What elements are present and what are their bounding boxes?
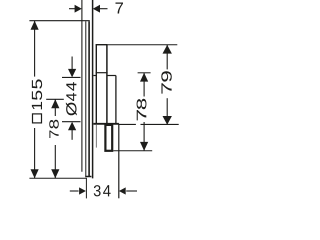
dim 34 left tail bbox=[70, 190, 79, 192]
dim 78 right down arrowhead bbox=[140, 142, 148, 151]
dim 78 left down arrowhead bbox=[51, 169, 59, 178]
white gap in ext under 78 text bbox=[136, 122, 141, 126]
label 79 bbox=[161, 83, 171, 93]
body faint inner vertical bbox=[95, 124, 97, 148]
dim O44 top tick bbox=[62, 76, 81, 78]
dim O44 lower arrow line bbox=[71, 129, 73, 140]
dim 7 right tail bbox=[100, 8, 108, 10]
label O44 bbox=[66, 102, 77, 115]
body box1 right edge bbox=[106, 45, 108, 124]
body box2 right edge bbox=[115, 76, 117, 125]
plate back line bbox=[88, 21, 90, 176]
dim 78 right top tick bbox=[138, 72, 151, 74]
body box1 left edge bbox=[95, 45, 97, 124]
dim 155 top extension line bbox=[29, 20, 89, 22]
label 78 left bbox=[49, 131, 58, 139]
dim O44 down arrowhead bbox=[68, 69, 76, 78]
dim 79 down arrowhead bbox=[163, 116, 172, 125]
body box1 top edge bbox=[96, 44, 108, 46]
dim O44 up arrowhead bbox=[68, 122, 76, 131]
label 34 bbox=[94, 185, 101, 196]
dim O44 bottom tick bbox=[62, 121, 81, 123]
dim 78 right line upper seg bbox=[143, 73, 145, 97]
dim 79 up arrowhead bbox=[163, 45, 172, 54]
dim 79 line upper seg bbox=[166, 45, 168, 70]
dim 78 right up arrowhead bbox=[140, 73, 148, 82]
dim 155/78 bottom extension line bbox=[29, 177, 86, 179]
dim 78 left line upper seg bbox=[54, 99, 56, 116]
label 78 right bbox=[137, 110, 147, 120]
dim 78 left top tick bbox=[46, 98, 64, 100]
dim 78 right line lower seg bbox=[143, 122, 145, 151]
dim 7 left tail bbox=[69, 8, 76, 10]
outlet small box bbox=[105, 125, 112, 151]
dim 79 bottom extension line bbox=[119, 123, 179, 125]
dim 79 line lower seg bbox=[166, 98, 168, 124]
dim 155 down arrowhead bbox=[31, 169, 39, 178]
dim 155 line lower seg bbox=[34, 128, 36, 178]
dim 34 right tail bbox=[126, 190, 137, 192]
body box1 inner line bbox=[96, 72, 108, 74]
plate mid line bbox=[85, 21, 87, 176]
dim 155 up arrowhead bbox=[31, 21, 39, 30]
wall line bbox=[92, 0, 94, 178]
dim 7 left arrowhead bbox=[75, 5, 82, 13]
body box2 top edge right seg bbox=[107, 75, 116, 77]
dim 34 left arrowhead bbox=[79, 187, 86, 194]
label 7 bbox=[115, 2, 123, 13]
plate front face (also ext line of dim 7) bbox=[81, 0, 83, 172]
body box2 top edge left seg bbox=[93, 75, 96, 77]
dim 34 left extension line bbox=[85, 178, 87, 198]
dim 34 right arrowhead bbox=[119, 187, 126, 194]
pipe line down bbox=[118, 124, 120, 199]
dim 78 right bottom extension line bbox=[113, 150, 152, 152]
plate bottom edge bbox=[85, 176, 91, 178]
dim 155 line upper seg bbox=[34, 21, 36, 77]
label 155 bbox=[32, 102, 42, 110]
dim 78 left line lower seg bbox=[54, 145, 56, 178]
body jog line thick bbox=[93, 123, 119, 125]
dim O44 upper arrow line bbox=[71, 57, 73, 71]
body top extension line to 79 dim bbox=[108, 44, 178, 46]
label square155: square symbol bbox=[33, 114, 42, 123]
dim 78 left up arrowhead bbox=[51, 99, 59, 108]
dim 7 right arrowhead bbox=[93, 5, 100, 13]
